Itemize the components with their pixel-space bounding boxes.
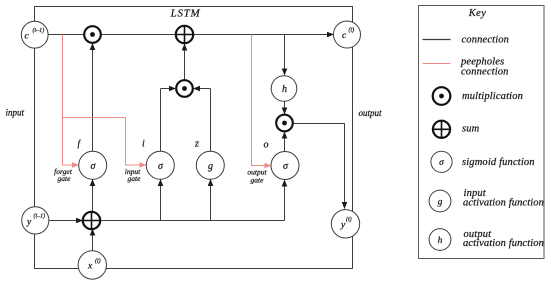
svg-text:y: y xyxy=(26,217,32,227)
svg-text:connection: connection xyxy=(461,67,509,78)
svg-text:sum: sum xyxy=(462,124,480,135)
svg-text:Key: Key xyxy=(468,8,487,19)
svg-text:(t–1): (t–1) xyxy=(34,213,46,220)
svg-text:(t): (t) xyxy=(349,27,355,34)
svg-text:gate: gate xyxy=(58,174,72,183)
svg-text:connection: connection xyxy=(462,35,510,46)
svg-text:LSTM: LSTM xyxy=(170,8,201,20)
svg-text:g: g xyxy=(208,161,213,172)
svg-text:multiplication: multiplication xyxy=(462,91,523,102)
svg-text:output: output xyxy=(359,108,383,118)
svg-text:h: h xyxy=(438,236,443,246)
svg-text:z: z xyxy=(194,139,199,150)
svg-text:i: i xyxy=(142,139,145,150)
svg-text:h: h xyxy=(282,84,287,95)
svg-text:(t): (t) xyxy=(95,258,101,265)
svg-text:g: g xyxy=(438,198,443,208)
svg-text:x: x xyxy=(87,262,93,272)
svg-text:sigmoid function: sigmoid function xyxy=(462,157,535,168)
svg-text:gate: gate xyxy=(128,174,142,183)
svg-text:(t): (t) xyxy=(346,216,352,223)
svg-text:gate: gate xyxy=(251,176,265,185)
svg-text:σ: σ xyxy=(439,158,444,168)
svg-text:(t–1): (t–1) xyxy=(33,27,45,34)
svg-text:activation function: activation function xyxy=(463,238,544,249)
svg-text:o: o xyxy=(264,140,269,151)
svg-text:activation function: activation function xyxy=(463,198,544,209)
svg-text:input: input xyxy=(6,108,25,118)
